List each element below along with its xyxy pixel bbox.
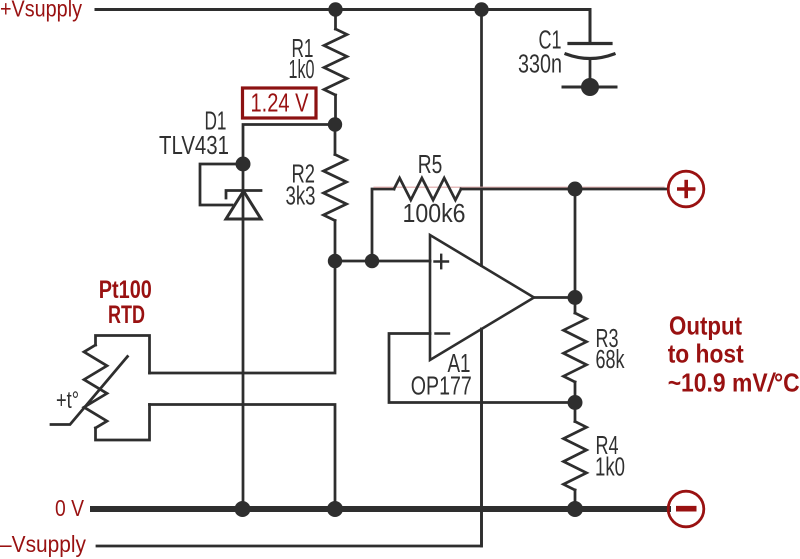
svg-text:+t°: +t° [56, 387, 79, 414]
resistor R4 [574, 403, 577, 422]
junction 0V RTD return [327, 501, 343, 517]
junction output top [568, 182, 583, 197]
terminal - output [668, 491, 704, 527]
svg-text:3k3: 3k3 [286, 183, 316, 211]
svg-text:0 V: 0 V [55, 495, 85, 521]
resistor R1 [334, 10, 337, 30]
wire - input feedback loop [389, 334, 575, 403]
net 0V rail [93, 506, 668, 512]
svg-text:330n: 330n [518, 51, 562, 79]
wire V+ supply to op-amp A1 V+ pin [480, 10, 483, 266]
op-amp + input symbol [435, 260, 449, 262]
junction R3/R4 feedback [568, 395, 583, 410]
net +Vsupply rail [96, 10, 590, 44]
wire 1.24V node (R1/R2 junction to D1 cathode) [243, 125, 335, 191]
svg-text:1k0: 1k0 [289, 56, 315, 84]
svg-text:OP177: OP177 [411, 373, 472, 401]
diode D1 anode wire to 0V [242, 192, 245, 509]
junction + input node [328, 254, 342, 268]
junction 0V D1 anode [235, 501, 251, 517]
diode D1 TLV431 triangle [226, 191, 261, 219]
wire op-amp + input node [335, 260, 430, 263]
net -Vsupply rail [97, 329, 482, 546]
svg-text:–Vsupply: –Vsupply [0, 531, 86, 557]
junction R5 branch [365, 254, 379, 268]
wire RTD top arm [150, 261, 336, 373]
wire RTD bottom arm to 0V [150, 405, 336, 510]
svg-text:68k: 68k [596, 346, 625, 374]
svg-text:1.24 V: 1.24 V [251, 88, 310, 118]
label 1.24 V box [243, 88, 317, 118]
resistor RTD body (Pt100) [96, 336, 150, 374]
junction C1 bottom [581, 78, 599, 96]
capacitor C1 curved plate [566, 54, 614, 59]
capacitor C1 top plate [569, 42, 611, 45]
RTD diagonal temperature arrow [51, 357, 128, 425]
junction D1 ref [236, 157, 251, 172]
junction top rail R1 [328, 2, 342, 16]
op-amp A1 triangle [430, 235, 534, 360]
resistor R5 [394, 178, 461, 200]
svg-text:R5: R5 [418, 151, 443, 179]
capacitor C1 bottom stub [589, 59, 592, 87]
svg-text:to host: to host [668, 339, 744, 369]
wire V- supply from op-amp bottom edge [480, 329, 483, 546]
resistor R3 [574, 298, 577, 314]
svg-text:1k0: 1k0 [595, 454, 625, 482]
svg-text:+Vsupply: +Vsupply [0, 0, 82, 21]
svg-text:100k6: 100k6 [403, 200, 466, 228]
junction op-amp output [568, 290, 583, 305]
wire R5 to + output terminal [461, 188, 667, 191]
resistor R2 [334, 125, 337, 155]
svg-text:TLV431: TLV431 [159, 132, 229, 160]
svg-text:~10.9 mV/°C: ~10.9 mV/°C [668, 368, 800, 398]
svg-text:Output: Output [669, 310, 742, 340]
svg-text:Pt100: Pt100 [99, 276, 152, 304]
red trace under output wire [374, 186, 664, 188]
junction 1.24V node [328, 117, 342, 131]
terminal + output [668, 171, 704, 207]
junction top rail V+ [474, 2, 488, 16]
wire output node vertical [574, 189, 577, 298]
diode D1 TLV431 ref loop wire [200, 164, 243, 205]
svg-text:RTD: RTD [108, 301, 145, 329]
wire op-amp output [534, 296, 575, 299]
diode D1 TLV431 cathode bar [226, 191, 261, 199]
wire R5 input branch from + node [372, 189, 394, 261]
op-amp - input symbol [436, 332, 450, 334]
junction 0V R4 [567, 501, 583, 517]
